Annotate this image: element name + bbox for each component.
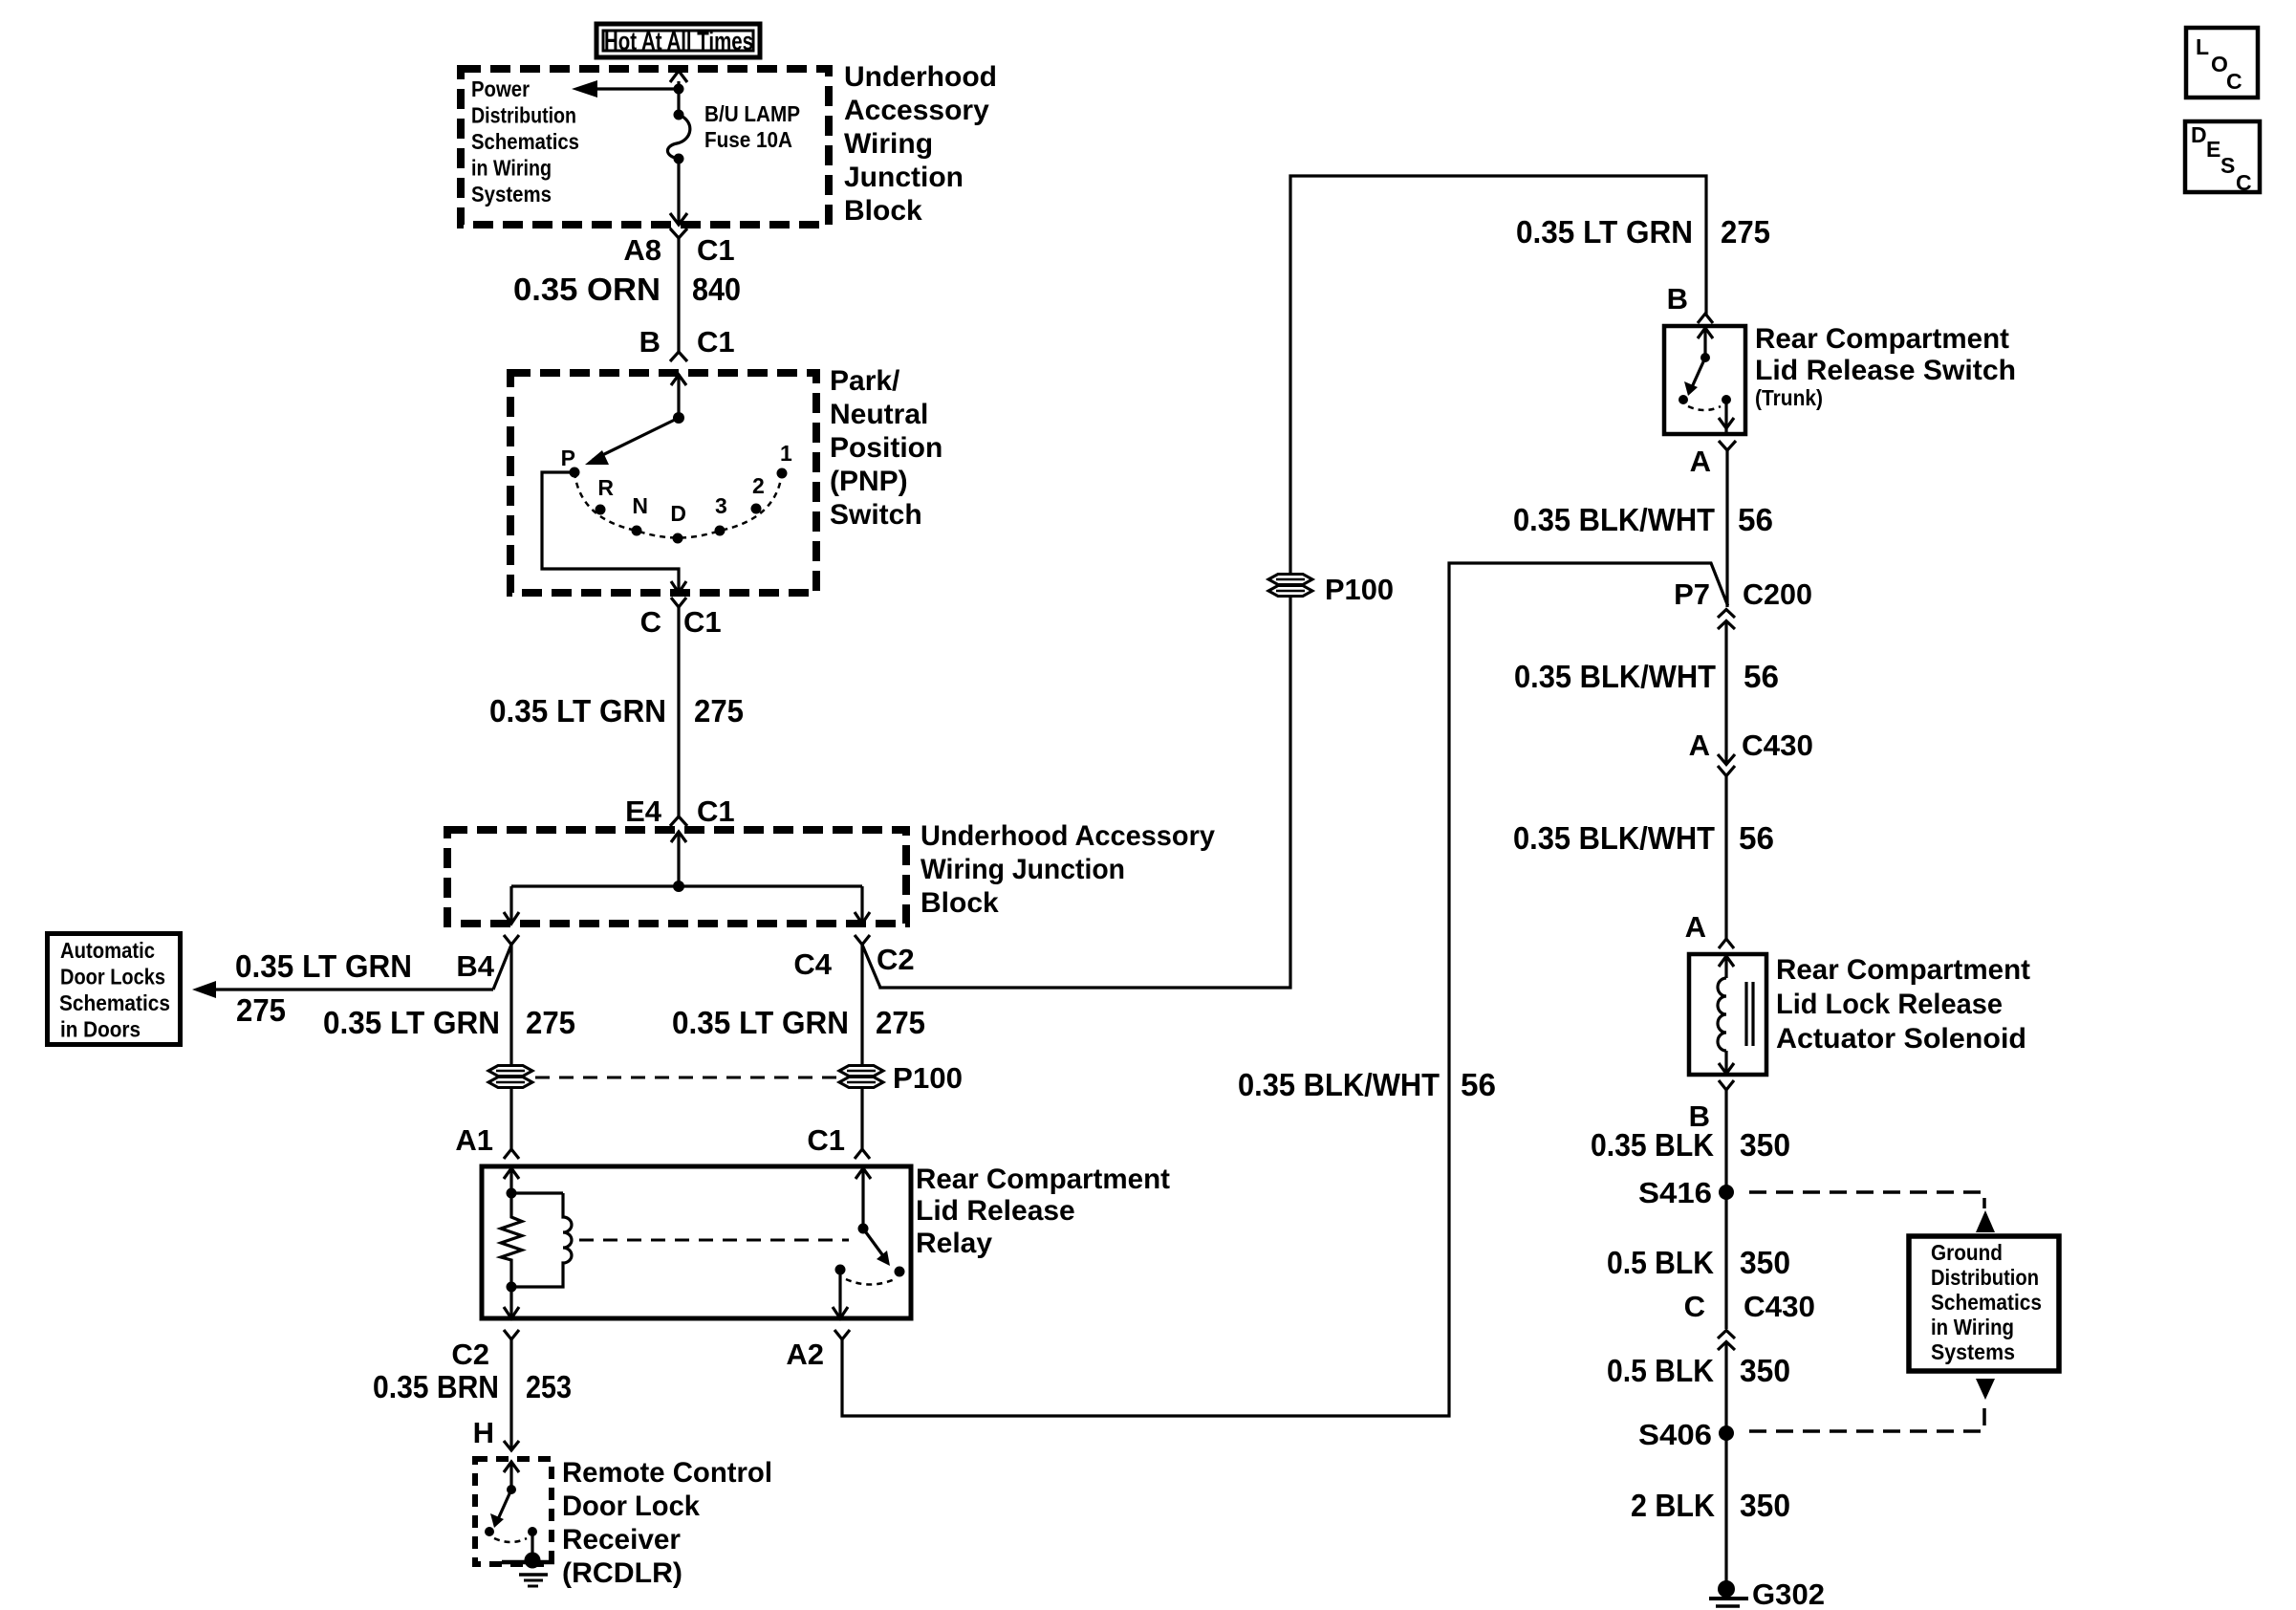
PNP switch label <box>830 365 942 531</box>
svg-text:P100: P100 <box>1325 573 1394 606</box>
node junction <box>673 412 684 424</box>
svg-text:0.35 LT GRN: 0.35 LT GRN <box>235 949 412 985</box>
contact NO dot <box>895 1267 905 1277</box>
svg-text:1: 1 <box>780 441 792 466</box>
S416 dashed branch to ground distribution <box>1749 1192 1984 1208</box>
svg-text:B/U LAMP: B/U LAMP <box>704 101 800 126</box>
switch label <box>1755 323 2016 410</box>
svg-text:0.35 LT GRN: 0.35 LT GRN <box>1516 215 1693 250</box>
position dot D <box>673 533 683 544</box>
C430 chevron down <box>1718 766 1735 776</box>
wire A2 long path to C200 <box>842 563 1727 1416</box>
svg-text:S: S <box>2220 153 2235 178</box>
svg-text:Block: Block <box>921 887 999 919</box>
RCDLR pole dot <box>507 1485 516 1494</box>
svg-text:C1: C1 <box>683 605 722 639</box>
svg-text:C430: C430 <box>1742 729 1813 762</box>
svg-text:C430: C430 <box>1744 1290 1815 1323</box>
svg-text:350: 350 <box>1740 1354 1790 1389</box>
relay label <box>916 1164 1170 1259</box>
svg-text:Lid Lock Release: Lid Lock Release <box>1776 989 2003 1020</box>
svg-text:0.5 BLK: 0.5 BLK <box>1607 1354 1714 1389</box>
svg-text:A: A <box>1689 729 1710 762</box>
RCDLR contact dot left <box>485 1527 494 1536</box>
position dot N <box>632 526 642 536</box>
wire S406 to G302 <box>1724 1433 1727 1582</box>
svg-text:Systems: Systems <box>471 182 552 207</box>
svg-text:P: P <box>561 446 575 470</box>
wire C2 to H <box>509 1339 512 1450</box>
svg-text:B: B <box>1667 282 1688 315</box>
svg-text:350: 350 <box>1740 1489 1790 1524</box>
wire from P to exit <box>542 472 679 592</box>
relay control dashed line <box>579 1239 849 1242</box>
svg-text:A1: A1 <box>455 1123 493 1157</box>
svg-text:Park/: Park/ <box>830 365 900 397</box>
position dot P <box>570 468 580 478</box>
svg-text:Underhood: Underhood <box>844 61 997 93</box>
wire B4 slant to door lock feed <box>493 945 511 990</box>
svg-text:C4: C4 <box>793 947 832 981</box>
svg-text:0.35 BLK/WHT: 0.35 BLK/WHT <box>1513 503 1715 538</box>
C430 chevron up <box>1718 1331 1735 1339</box>
off-page arrow up <box>1976 1210 1995 1232</box>
position dot 3 <box>715 526 726 536</box>
svg-text:A8: A8 <box>623 233 661 267</box>
svg-text:275: 275 <box>694 694 744 729</box>
svg-text:in Wiring: in Wiring <box>1931 1315 2014 1339</box>
wire fuse to block exit <box>677 159 680 225</box>
svg-text:Receiver: Receiver <box>562 1524 681 1556</box>
svg-text:Underhood Accessory: Underhood Accessory <box>921 820 1215 852</box>
reference note Power Distribution Schematics in Wiring Systems <box>471 76 579 207</box>
svg-text:0.5 BLK: 0.5 BLK <box>1607 1246 1714 1281</box>
wire C to E4 <box>677 607 680 816</box>
rear compartment lid lock release actuator solenoid box <box>1689 954 1766 1075</box>
off-page arrow down <box>1976 1379 1995 1400</box>
arrowhead power distribution <box>572 80 597 98</box>
contact exit wire A2 <box>838 1270 841 1318</box>
svg-text:0.35 LT GRN: 0.35 LT GRN <box>323 1006 500 1041</box>
svg-text:350: 350 <box>1740 1128 1790 1164</box>
chassis ground RCDLR <box>502 1553 554 1587</box>
svg-text:A: A <box>1685 910 1706 944</box>
svg-text:Systems: Systems <box>1931 1339 2015 1364</box>
PNP entry wire <box>677 374 680 418</box>
contact arm arrow <box>863 1229 884 1257</box>
wire A to C200 <box>1725 450 1728 607</box>
wire C200 to C430 <box>1724 621 1727 765</box>
actuator exit <box>1724 1051 1727 1075</box>
svg-text:(PNP): (PNP) <box>830 466 908 497</box>
svg-text:Remote Control: Remote Control <box>562 1457 772 1489</box>
svg-text:(RCDLR): (RCDLR) <box>562 1557 682 1589</box>
switch entry stem <box>1703 328 1706 358</box>
svg-text:B4: B4 <box>456 949 494 983</box>
svg-text:0.35 BLK: 0.35 BLK <box>1591 1128 1714 1164</box>
svg-text:C1: C1 <box>697 233 735 267</box>
switch contact dot left <box>1679 395 1688 404</box>
svg-text:C1: C1 <box>697 325 735 359</box>
S406 dashed branch <box>1749 1405 1984 1431</box>
connector B fork switch <box>1698 314 1713 323</box>
connector E4/C1 fork <box>670 816 687 826</box>
connector A8/C1 fork <box>670 228 687 238</box>
selector arm arrow to P <box>593 418 679 460</box>
solenoid core bars <box>1744 982 1747 1046</box>
connector B fork actuator <box>1719 1080 1734 1090</box>
svg-text:Fuse 10A: Fuse 10A <box>704 127 792 152</box>
grommet P100 left <box>488 1066 532 1088</box>
relay box Rear Compartment Lid Release Relay <box>482 1166 911 1318</box>
connector B4 fork <box>504 935 519 945</box>
coil bottom node dot <box>507 1282 517 1293</box>
wire to power distribution arrow <box>595 87 679 90</box>
svg-text:Automatic: Automatic <box>60 938 155 963</box>
svg-text:Position: Position <box>830 432 942 464</box>
svg-text:0.35 LT GRN: 0.35 LT GRN <box>672 1006 849 1041</box>
connector C1 fork (relay) <box>855 1149 870 1159</box>
contact pole dot <box>858 1224 869 1234</box>
svg-text:Power: Power <box>471 76 530 101</box>
position dot 2 <box>751 504 762 514</box>
svg-text:Lid Release: Lid Release <box>916 1195 1075 1227</box>
svg-text:E4: E4 <box>625 794 662 828</box>
svg-text:2 BLK: 2 BLK <box>1631 1489 1715 1524</box>
svg-text:253: 253 <box>526 1370 572 1405</box>
switch exit wire <box>1724 400 1727 433</box>
wire C430 to actuator <box>1724 776 1727 939</box>
svg-text:Block: Block <box>844 195 922 227</box>
RCDLR switch arm arrow <box>498 1490 511 1519</box>
resistor R relay <box>501 1193 522 1287</box>
RCDLR dashed box <box>475 1459 552 1564</box>
svg-text:Wiring: Wiring <box>844 128 933 160</box>
link to coil <box>511 1191 563 1194</box>
svg-text:Rear Compartment: Rear Compartment <box>1776 954 2030 986</box>
PNP switch dashed box <box>510 373 816 593</box>
svg-text:0.35 BLK/WHT: 0.35 BLK/WHT <box>1513 821 1715 857</box>
ground G302 <box>1709 1580 1748 1606</box>
rear compartment lid release switch box <box>1664 326 1745 434</box>
svg-text:275: 275 <box>876 1006 925 1041</box>
switch pole dot <box>1700 353 1710 362</box>
grommet P100 mid <box>1268 575 1312 597</box>
C430 arrow mark down <box>1718 754 1735 765</box>
junction node dot <box>673 881 684 892</box>
in-line connector C200 <box>1674 577 1812 629</box>
svg-text:56: 56 <box>1744 660 1779 695</box>
grommet P100 right <box>839 1066 883 1088</box>
coil exit wire C2 <box>509 1287 512 1318</box>
svg-text:0.35 LT GRN: 0.35 LT GRN <box>489 694 666 729</box>
ground lead RCDLR <box>531 1532 533 1556</box>
svg-text:Accessory: Accessory <box>844 95 989 126</box>
svg-text:Wiring Junction: Wiring Junction <box>921 854 1125 885</box>
wire to automatic door locks <box>197 988 493 990</box>
connector A fork actuator <box>1719 939 1734 948</box>
junction dot <box>674 84 684 95</box>
arrow exit bottom <box>670 213 687 225</box>
svg-text:3: 3 <box>715 493 727 518</box>
contact output dot <box>835 1265 846 1275</box>
svg-text:in Wiring: in Wiring <box>471 156 552 181</box>
svg-text:C: C <box>2226 69 2242 94</box>
ground distribution reference box <box>1909 1236 2059 1371</box>
actuator entry <box>1724 956 1727 978</box>
svg-text:in Doors: in Doors <box>60 1017 141 1042</box>
wire B to S416 <box>1724 1090 1727 1329</box>
position dot R <box>596 505 606 515</box>
right branch drop <box>860 886 863 924</box>
svg-text:Junction: Junction <box>844 162 964 193</box>
C430 arrow mark up <box>1718 1342 1735 1351</box>
wire C430 to S406 <box>1724 1342 1727 1433</box>
switch arm arrow <box>1692 358 1705 387</box>
junction block 2 label <box>921 820 1215 919</box>
junction block 2 entry wire <box>677 832 680 886</box>
RCDLR label <box>562 1457 772 1589</box>
automatic door locks reference box <box>48 934 181 1045</box>
svg-text:275: 275 <box>236 993 286 1029</box>
svg-text:C: C <box>640 605 661 639</box>
connector C4 fork <box>855 935 870 945</box>
C200 arrow mark <box>1718 621 1735 630</box>
svg-text:S406: S406 <box>1638 1418 1712 1451</box>
junction block 2 dashed box <box>447 830 906 924</box>
actuator label <box>1776 954 2030 1055</box>
svg-text:Rear Compartment: Rear Compartment <box>916 1164 1170 1195</box>
connector A1 fork <box>504 1149 519 1159</box>
svg-text:Distribution: Distribution <box>471 103 576 128</box>
svg-text:2: 2 <box>752 473 765 498</box>
svg-text:0.35 BRN: 0.35 BRN <box>373 1370 499 1405</box>
RCDLR switch entry <box>509 1462 512 1490</box>
svg-text:Door Locks: Door Locks <box>60 965 165 990</box>
svg-text:Door Lock: Door Lock <box>562 1490 700 1522</box>
solenoid coil <box>1718 978 1726 1051</box>
svg-text:Schematics: Schematics <box>471 129 579 154</box>
svg-text:H: H <box>473 1416 494 1449</box>
LOC reference box <box>2186 28 2258 98</box>
svg-text:Ground: Ground <box>1931 1240 2003 1265</box>
svg-text:C: C <box>1684 1290 1705 1323</box>
connector B/C1 fork <box>670 352 687 361</box>
wire C2 to rear lid release switch via P100 grommet <box>880 176 1706 988</box>
wire C2 slant <box>862 945 880 988</box>
svg-text:56: 56 <box>1461 1068 1496 1103</box>
connector C/C1 fork <box>671 598 686 607</box>
wire feed inside junction block 1 <box>677 81 680 115</box>
svg-text:C2: C2 <box>451 1338 489 1371</box>
svg-text:Hot At All Times: Hot At All Times <box>604 27 753 55</box>
connector C2 fork below relay <box>504 1330 519 1339</box>
switch contact dot right <box>1722 395 1731 404</box>
svg-text:C2: C2 <box>877 943 915 976</box>
svg-text:350: 350 <box>1740 1246 1790 1281</box>
svg-text:D: D <box>670 501 686 526</box>
power feed box Hot At All Times <box>596 24 760 57</box>
contact travel dashed arc <box>846 1279 895 1285</box>
svg-text:56: 56 <box>1739 821 1774 857</box>
svg-text:275: 275 <box>526 1006 575 1041</box>
relay coil L <box>511 1193 572 1287</box>
svg-text:C: C <box>2236 170 2252 195</box>
svg-text:C1: C1 <box>807 1123 845 1157</box>
DESC reference box <box>2185 121 2260 195</box>
left branch drop <box>509 886 512 924</box>
svg-text:Schematics: Schematics <box>1931 1290 2042 1315</box>
RCDLR contact dot right <box>528 1527 537 1536</box>
svg-text:840: 840 <box>692 272 741 308</box>
junction block 1 dashed box (Underhood Accessory Wiring Junction Block) <box>461 69 829 225</box>
arrow up to hot feed <box>670 71 687 82</box>
connector H fork <box>504 1441 519 1450</box>
svg-text:Relay: Relay <box>916 1228 992 1259</box>
connector A2 fork below relay <box>834 1330 850 1339</box>
svg-text:Actuator Solenoid: Actuator Solenoid <box>1776 1023 2026 1055</box>
splitter bus wire <box>511 884 862 887</box>
svg-text:275: 275 <box>1721 215 1770 250</box>
svg-text:P7: P7 <box>1674 577 1710 611</box>
svg-text:56: 56 <box>1738 503 1773 538</box>
switch travel dashed arc <box>1688 406 1721 410</box>
svg-text:Neutral: Neutral <box>830 399 928 430</box>
in-line connector C430 (C) <box>1684 1290 1815 1350</box>
relay coil feed entry A1 <box>509 1168 512 1193</box>
svg-text:E: E <box>2206 137 2220 162</box>
svg-text:S416: S416 <box>1638 1176 1712 1209</box>
coil top node dot <box>507 1188 517 1199</box>
junction block 1 label <box>844 61 997 227</box>
wire A8 to B <box>677 238 680 352</box>
C200 chevron <box>1718 610 1735 619</box>
svg-text:Lid Release Switch: Lid Release Switch <box>1755 355 2016 386</box>
svg-text:Schematics: Schematics <box>59 990 170 1015</box>
svg-text:R: R <box>597 475 614 500</box>
arrowhead to door locks <box>192 981 216 998</box>
svg-text:P100: P100 <box>893 1061 963 1095</box>
left branch wire down <box>509 945 512 1149</box>
svg-text:0.35 BLK/WHT: 0.35 BLK/WHT <box>1514 660 1716 695</box>
right branch wire down <box>860 945 863 1149</box>
svg-text:(Trunk): (Trunk) <box>1755 385 1823 410</box>
dashed selector arc <box>574 472 782 538</box>
svg-text:C200: C200 <box>1743 577 1812 611</box>
in-line connector C430 (A) <box>1689 729 1813 776</box>
relay contact entry C1 <box>861 1168 864 1229</box>
svg-text:Rear Compartment: Rear Compartment <box>1755 323 2009 355</box>
svg-text:G302: G302 <box>1752 1577 1825 1610</box>
svg-text:A2: A2 <box>786 1338 824 1371</box>
RCDLR travel dashed arc <box>494 1538 527 1542</box>
svg-text:0.35 ORN: 0.35 ORN <box>513 272 661 308</box>
grommet dashed pairing line <box>535 1077 836 1079</box>
svg-text:N: N <box>632 493 648 518</box>
svg-text:0.35 BLK/WHT: 0.35 BLK/WHT <box>1238 1068 1440 1103</box>
svg-text:Switch: Switch <box>830 499 922 531</box>
arrow exit bottom PNP <box>671 581 686 593</box>
svg-text:D: D <box>2191 122 2207 147</box>
svg-text:L: L <box>2196 34 2209 59</box>
position dot 1 <box>777 468 788 479</box>
svg-text:Distribution: Distribution <box>1931 1265 2039 1290</box>
svg-text:A: A <box>1690 445 1711 478</box>
fuse B/U LAMP 10A <box>674 110 684 120</box>
svg-text:B: B <box>639 325 661 359</box>
connector A fork below switch <box>1719 441 1736 450</box>
svg-text:C1: C1 <box>697 794 735 828</box>
